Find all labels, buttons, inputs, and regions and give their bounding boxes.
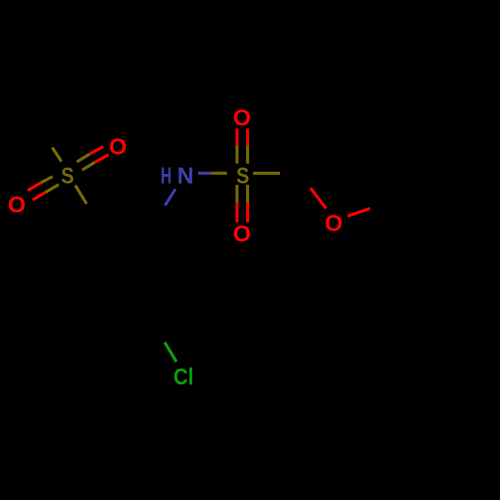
bond N-S2, N half (198, 172, 211, 175)
bond S1-C aryl (S half) (75, 185, 86, 204)
svg-text:O: O (233, 104, 251, 130)
bond S1=O bottom-left, line 1, S half (41, 177, 53, 183)
bond S1=O bottom-left, line 2, O half (33, 192, 46, 200)
bond S2=O bottom, line 1, S half (236, 185, 239, 204)
bond S1=O bottom-left, line 2, S half (46, 185, 59, 193)
svg-text:Cl: Cl (174, 364, 194, 390)
bond O furan-C7a (O half) (348, 208, 371, 216)
svg-text:O: O (325, 210, 343, 236)
bond S1=O top-right, line 2, S half (82, 162, 95, 170)
bond N-S2, S half (211, 172, 227, 175)
bond S2=O bottom, line 2, S half (246, 185, 249, 204)
bond S1=O bottom-left, line 1, O half (28, 183, 41, 191)
bond S2=O top, line 1, O half (236, 129, 239, 146)
bond N-C aryl (N half) (165, 189, 176, 206)
bond S2=O bottom, line 2, O half (246, 203, 249, 222)
bond S2=O bottom, line 1, O half (236, 203, 239, 222)
bond S2=O top, line 2, S half (246, 145, 249, 163)
bond C5-Cl (Cl half) (165, 342, 177, 362)
bond S2-C2 furan (S half) (253, 172, 280, 175)
bond S1-CH3 (methyl, S half) (52, 148, 61, 162)
svg-text:O: O (109, 133, 127, 159)
svg-text:S: S (61, 163, 74, 189)
bond S1=O top-right, line 2, O half (95, 155, 109, 163)
bond S1=O top-right, line 1, O half (89, 147, 103, 155)
bond S2=O top, line 2, O half (246, 129, 249, 146)
svg-text:H: H (161, 162, 172, 188)
svg-text:N: N (177, 162, 194, 188)
bond S2=O top, line 1, S half (236, 145, 239, 163)
svg-text:S: S (236, 162, 249, 188)
bond O furan-C2 (O half) (311, 188, 327, 209)
svg-text:O: O (233, 221, 251, 247)
bond S1=O top-right, line 1, S half (77, 154, 90, 162)
svg-text:O: O (8, 191, 26, 217)
